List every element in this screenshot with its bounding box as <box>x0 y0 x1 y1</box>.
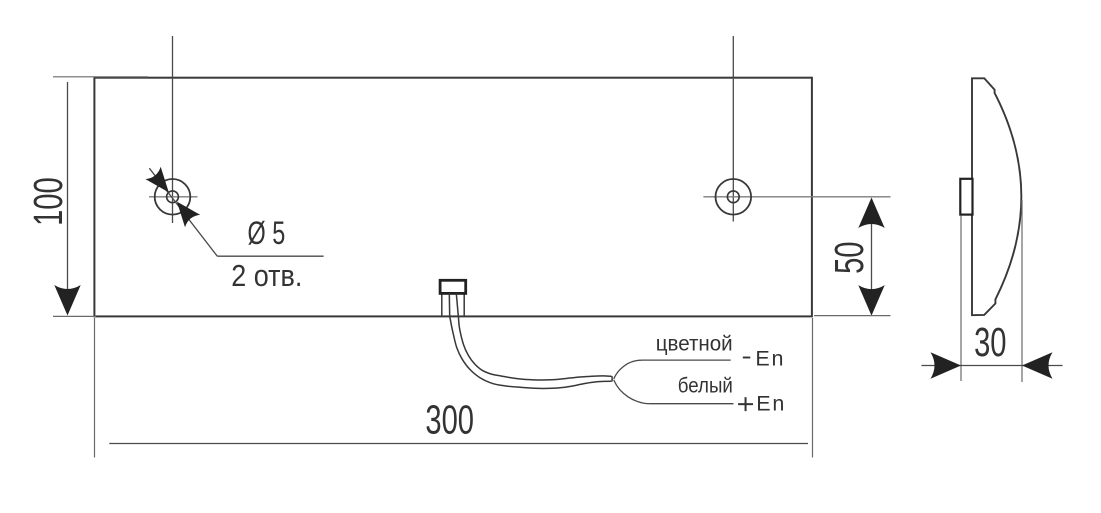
svg-text:100: 100 <box>26 177 71 226</box>
leader line through hole H1 <box>149 168 217 256</box>
50-dim line <box>871 200 873 314</box>
hole H1 horizontal centerline <box>149 196 198 198</box>
30-dim left extension <box>960 216 962 382</box>
cable inner line <box>458 316 611 380</box>
connector body side lines <box>441 293 443 315</box>
100-dim line <box>67 82 69 290</box>
300-dim left extension <box>94 318 96 458</box>
100-dim arrow (down) <box>54 285 80 316</box>
svg-text:300: 300 <box>425 398 474 443</box>
hole H2 inner circle <box>727 191 739 203</box>
30-dim left arrow (pointing right) <box>931 352 962 378</box>
side bracket <box>960 179 972 215</box>
svg-text:50: 50 <box>828 241 873 273</box>
300-dim line <box>109 443 808 445</box>
label - En <box>743 357 751 359</box>
leader arrow 2 (pointing up-left at hole) <box>169 195 200 227</box>
50-dim arrow up <box>858 198 884 229</box>
30-dim right extension <box>1021 200 1023 382</box>
svg-text:белый: белый <box>678 375 733 398</box>
svg-text:30: 30 <box>974 321 1006 366</box>
leader arrow 1 (pointing down-right at hole) <box>145 167 176 199</box>
hole H1 inner circle <box>167 191 179 203</box>
svg-text:2 отв.: 2 отв. <box>231 259 302 293</box>
cable outer line <box>450 316 612 388</box>
connector cap <box>440 280 466 293</box>
svg-text:цветной: цветной <box>656 332 733 355</box>
leader shelf <box>217 255 323 257</box>
300-dim right extension <box>812 318 814 458</box>
svg-text:Ø 5: Ø 5 <box>248 214 286 251</box>
30-dim line <box>921 365 1062 367</box>
hole H2 vertical centerline <box>732 36 734 222</box>
plate outline (front view 300x100) <box>94 78 812 317</box>
100-dim bottom extension line <box>53 315 96 317</box>
50-dim arrow down <box>858 285 884 316</box>
hole H2 outer circle <box>716 179 752 215</box>
svg-text:En: En <box>756 392 786 416</box>
hole H1 vertical centerline <box>172 36 174 223</box>
wire branch upper <box>614 360 731 379</box>
plus sign drawn as lines <box>738 397 753 411</box>
plate bottom edge right extension (50-dim bottom extension) <box>814 315 891 317</box>
hole H2 horizontal centerline / 50-dim top extension <box>703 196 890 198</box>
hole H1 outer circle <box>155 179 191 215</box>
30-dim right arrow (pointing left) <box>1022 352 1053 378</box>
svg-text:En: En <box>755 346 785 370</box>
connector wires <box>448 293 450 317</box>
cable end cap <box>611 376 613 381</box>
side profile outline <box>972 78 1021 315</box>
wire branch lower <box>614 380 734 404</box>
100-dim top extension line <box>53 76 148 78</box>
